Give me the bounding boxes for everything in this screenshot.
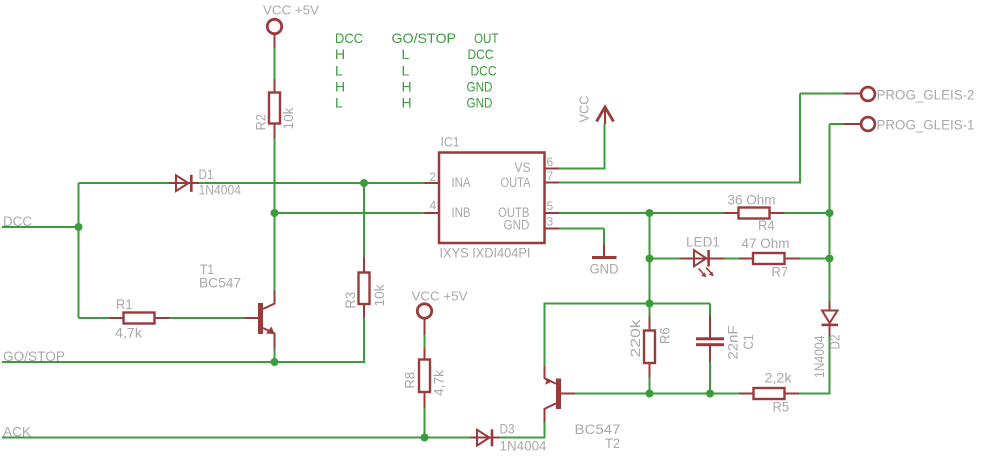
wire to R6 top: [649, 304, 651, 318]
IC1 pin 7 OUTA: [501, 169, 560, 190]
svg-text:1N4004: 1N4004: [199, 183, 242, 198]
svg-text:4: 4: [430, 199, 437, 213]
wire LED1 to R7: [725, 258, 740, 260]
node C1 bottom junction: [706, 390, 714, 398]
wire net DCC horizontal: [2, 226, 79, 228]
svg-text:3: 3: [547, 215, 554, 229]
resistor R4 36 Ohm (horizontal): [724, 193, 785, 234]
wire to PROG_GLEIS-2 pin: [800, 93, 844, 95]
svg-text:GO/STOP: GO/STOP: [392, 30, 457, 46]
node DCC label: [3, 214, 32, 229]
node R7/D2 junction: [826, 255, 834, 263]
svg-text:L: L: [402, 46, 410, 62]
svg-text:INB: INB: [452, 205, 471, 220]
svg-text:LED1: LED1: [686, 235, 720, 250]
truth table row 2: [335, 62, 497, 78]
svg-text:R3: R3: [343, 292, 358, 309]
truth table row 4: [335, 95, 493, 111]
svg-text:H: H: [402, 95, 412, 111]
truth table header: [335, 30, 499, 46]
transistor T2 BC547 (mirrored): [544, 366, 621, 451]
svg-text:DCC: DCC: [3, 214, 32, 229]
svg-text:GND: GND: [590, 262, 619, 277]
svg-text:BC547: BC547: [575, 422, 621, 437]
node LED junction: [646, 255, 654, 263]
svg-text:7: 7: [547, 169, 554, 183]
svg-text:INA: INA: [452, 175, 471, 190]
wire T2 emitter column: [544, 304, 546, 367]
resistor R2 10k (vertical): [254, 79, 297, 139]
svg-text:5: 5: [547, 199, 554, 213]
node ACK/R8 junction: [421, 434, 429, 442]
IC1 pin 3 GND: [504, 215, 560, 233]
IC1 pin 2 INA: [425, 170, 471, 190]
svg-text:OUTA: OUTA: [501, 175, 531, 190]
node ACK label: [3, 425, 31, 440]
supply VCC +5V (middle): [412, 289, 468, 335]
svg-text:D2: D2: [828, 335, 843, 350]
resistor R1 4,7k (horizontal): [110, 297, 170, 341]
svg-text:VCC: VCC: [577, 96, 592, 123]
truth table row 3: [335, 79, 493, 95]
svg-text:ACK: ACK: [3, 425, 31, 440]
wire D3 cathode to T2: [499, 437, 545, 439]
wire IC pin 3 to ground: [559, 228, 604, 230]
node DCC junction: [75, 223, 83, 231]
svg-text:10k: 10k: [281, 107, 296, 129]
node GO/STOP label: [3, 349, 65, 364]
svg-text:VCC +5V: VCC +5V: [412, 289, 468, 304]
svg-text:R8: R8: [403, 372, 418, 389]
wire T2 base to R5: [574, 393, 740, 395]
svg-text:6: 6: [547, 155, 554, 169]
wire down to C1 top: [709, 304, 711, 316]
LED LED1: [680, 235, 725, 278]
resistor R8 4,7k (vertical): [403, 348, 447, 409]
svg-text:D3: D3: [500, 422, 515, 437]
svg-text:H: H: [335, 46, 345, 62]
resistor R5 2,2k (horizontal): [739, 371, 799, 415]
svg-text:GND: GND: [467, 79, 493, 95]
svg-text:L: L: [402, 62, 410, 78]
wire R8 bottom to ACK: [424, 408, 426, 439]
node INA/R3 junction: [360, 179, 368, 187]
resistor R3 10k (vertical): [343, 258, 387, 318]
svg-text:L: L: [335, 62, 343, 78]
svg-text:H: H: [335, 79, 345, 95]
node OUTB junction: [646, 209, 654, 217]
svg-text:H: H: [402, 79, 412, 95]
svg-text:22nF: 22nF: [726, 326, 741, 360]
wire R6 bottom: [649, 377, 651, 395]
wire to D1 anode: [79, 182, 170, 184]
resistor R6 220k (vertical): [628, 317, 673, 378]
svg-text:R6: R6: [658, 328, 673, 345]
svg-text:R5: R5: [773, 400, 790, 415]
diode D3 1N4004: [470, 422, 547, 454]
svg-text:VS: VS: [515, 160, 531, 175]
svg-text:1N4004: 1N4004: [812, 335, 827, 378]
resistor R7 47 Ohm (horizontal): [739, 236, 800, 280]
wire net DCC vertical up: [78, 183, 80, 228]
svg-text:L: L: [335, 95, 343, 111]
node R6 bottom junction: [646, 390, 654, 398]
svg-text:GND: GND: [504, 217, 530, 232]
svg-text:DCC: DCC: [335, 30, 363, 46]
wire VCC supply to R2: [274, 47, 276, 80]
svg-text:47 Ohm: 47 Ohm: [742, 236, 790, 251]
wire OUTA up to PROG_GLEIS-2: [799, 94, 801, 184]
svg-text:PROG_GLEIS-2: PROG_GLEIS-2: [877, 88, 975, 103]
wire down to ground symbol: [603, 229, 605, 245]
supply VCC +5V (top): [263, 3, 319, 48]
wire T1 emitter to GO/STOP: [274, 348, 276, 363]
wire OUTB to R4: [559, 212, 724, 214]
svg-text:4,7k: 4,7k: [115, 326, 142, 341]
capacitor C1 22nF: [696, 315, 756, 362]
pin PROG_GLEIS-1: [844, 117, 975, 132]
svg-text:DCC: DCC: [471, 62, 497, 78]
svg-text:R1: R1: [116, 297, 133, 312]
ground GND symbol: [590, 244, 619, 277]
svg-text:IC1: IC1: [441, 135, 460, 150]
svg-text:1N4004: 1N4004: [500, 439, 547, 454]
wire D2 cathode down: [829, 336, 831, 395]
svg-text:R2: R2: [254, 114, 269, 131]
wire D1 cathode to IC pin 2: [199, 182, 426, 184]
node R4/PROG junction: [826, 209, 834, 217]
IC1 pin 4 INB: [425, 199, 471, 221]
wire OUTB column down: [649, 213, 651, 304]
svg-text:2: 2: [430, 170, 437, 184]
wire C1 bottom: [709, 362, 711, 395]
svg-text:BC547: BC547: [199, 276, 241, 291]
svg-text:PROG_GLEIS-1: PROG_GLEIS-1: [877, 118, 975, 133]
wire R3 bottom to GO/STOP: [363, 317, 365, 363]
wire R5 right: [799, 393, 831, 395]
wire to R1 left: [79, 317, 111, 319]
wire OUTA net: [559, 182, 800, 184]
wire R2 bottom down to T1 collector: [274, 138, 276, 291]
node GO/STOP junction: [271, 358, 279, 366]
wire to IC pin 4: [275, 212, 426, 214]
svg-text:R7: R7: [772, 265, 789, 280]
supply VCC arrow near IC: [577, 96, 614, 125]
wire VCC supply to R8: [424, 334, 426, 348]
svg-text:10k: 10k: [372, 284, 387, 306]
svg-text:GND: GND: [467, 95, 493, 111]
svg-text:T2: T2: [605, 436, 620, 451]
IC1 pin 6 VS: [515, 155, 560, 175]
wire R4 right: [784, 212, 831, 214]
IC1 pin 5 OUTB: [498, 199, 559, 220]
svg-text:36 Ohm: 36 Ohm: [728, 193, 776, 208]
pin PROG_GLEIS-2: [844, 87, 975, 102]
svg-text:GO/STOP: GO/STOP: [3, 349, 65, 364]
wire PROG_GLEIS-1 column down to D2: [829, 124, 831, 302]
wire net GO/STOP horizontal: [2, 361, 364, 363]
wire T2 emitter to R6 C1 top: [544, 303, 711, 305]
diode D2 1N4004 (vertical): [812, 301, 843, 378]
node R6 top junction: [646, 300, 654, 308]
svg-text:R4: R4: [758, 218, 775, 233]
wire to PROG_GLEIS-1 pin: [830, 123, 844, 125]
svg-text:220k: 220k: [628, 319, 643, 357]
svg-text:D1: D1: [199, 167, 214, 182]
wire IC pin 6 to VCC arrow: [559, 168, 605, 170]
wire R1 right to T1 base: [169, 317, 245, 319]
svg-text:OUT: OUT: [474, 30, 499, 46]
svg-text:C1: C1: [741, 335, 756, 350]
wire R7 right: [800, 258, 831, 260]
wire up to VCC arrow: [604, 124, 606, 170]
svg-text:IXYS IXDI404PI: IXYS IXDI404PI: [440, 246, 531, 261]
svg-text:4,7k: 4,7k: [432, 370, 447, 396]
node INB junction: [271, 209, 279, 217]
svg-text:2,2k: 2,2k: [765, 371, 792, 386]
op-amp / driver IC U1 IXYS IXDI404PI box: [439, 135, 545, 261]
wire to LED1: [650, 258, 680, 260]
truth table row 1: [335, 46, 494, 62]
wire up to T2 collector: [544, 422, 546, 439]
transistor T1 BC547: [199, 262, 275, 349]
diode D1 1N4004: [169, 167, 241, 198]
svg-text:DCC: DCC: [468, 46, 494, 62]
svg-text:VCC +5V: VCC +5V: [263, 3, 319, 18]
wire net DCC vertical down: [78, 227, 80, 318]
wire net ACK horizontal: [2, 437, 470, 439]
wire down to R3 top: [363, 183, 365, 258]
